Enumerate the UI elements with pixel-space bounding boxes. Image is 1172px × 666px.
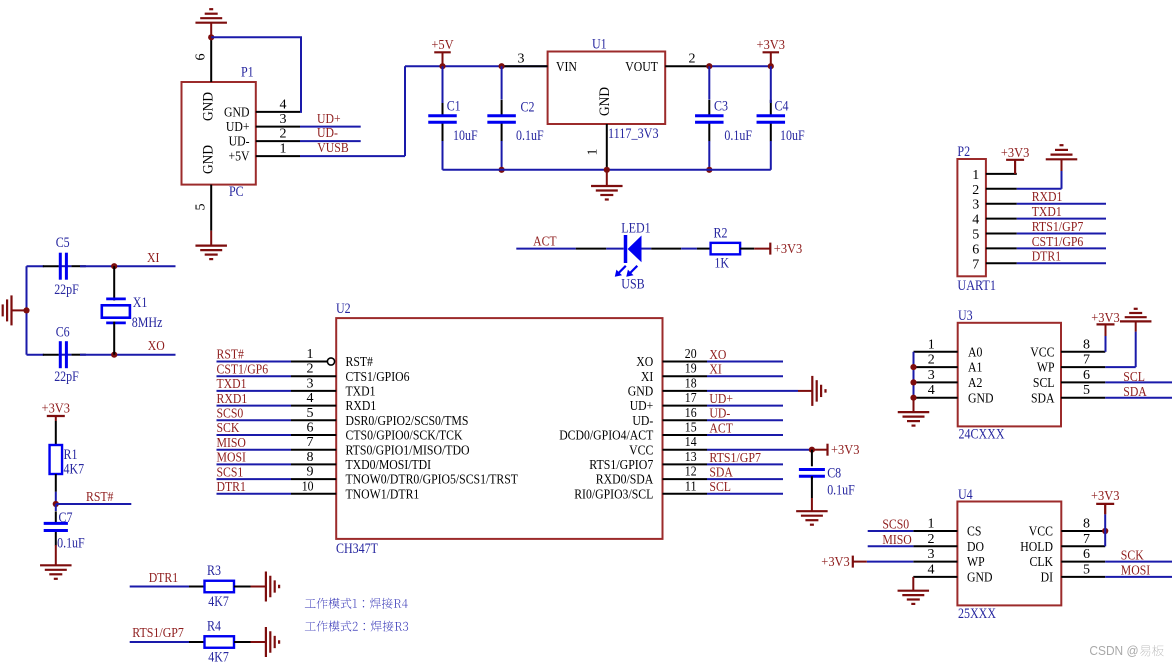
svg-text:5: 5	[1083, 383, 1090, 398]
svg-text:C6: C6	[56, 325, 70, 341]
svg-text:1: 1	[928, 337, 935, 352]
svg-text:SCS0: SCS0	[217, 407, 244, 422]
svg-text:5: 5	[194, 204, 209, 211]
svg-text:2: 2	[928, 532, 935, 547]
svg-text:CS: CS	[967, 525, 981, 540]
svg-text:20: 20	[685, 347, 697, 362]
svg-text:VIN: VIN	[556, 60, 577, 75]
svg-text:U4: U4	[958, 487, 973, 503]
svg-text:SCK: SCK	[217, 421, 240, 436]
svg-text:+3V3: +3V3	[42, 402, 71, 417]
svg-text:SCL: SCL	[1123, 370, 1145, 385]
svg-text:C5: C5	[56, 235, 70, 251]
svg-text:2: 2	[972, 183, 979, 198]
svg-text:TNOW1/DTR1: TNOW1/DTR1	[346, 487, 420, 502]
svg-text:CSDN @: CSDN @	[1089, 643, 1138, 658]
svg-text:RTS1/GPIO7: RTS1/GPIO7	[589, 458, 653, 473]
svg-text:DTR1: DTR1	[217, 480, 246, 495]
svg-text:1K: 1K	[714, 256, 729, 272]
svg-text:+3V3: +3V3	[1091, 489, 1120, 504]
svg-text:SCL: SCL	[1033, 376, 1055, 391]
svg-text:UD-: UD-	[317, 126, 338, 141]
svg-text:CST1/GP6: CST1/GP6	[217, 362, 269, 377]
svg-text:RST#: RST#	[86, 490, 113, 505]
svg-text:9: 9	[307, 465, 314, 480]
svg-text:XO: XO	[636, 355, 653, 370]
svg-text:C8: C8	[827, 466, 841, 482]
svg-text:RXD1: RXD1	[346, 399, 377, 414]
svg-text:SCS0: SCS0	[882, 518, 909, 533]
svg-text:XO: XO	[709, 348, 726, 363]
svg-text:17: 17	[685, 391, 697, 406]
svg-text:4: 4	[307, 391, 314, 406]
svg-text:RTS1/GP7: RTS1/GP7	[132, 626, 184, 641]
svg-text:SCS1: SCS1	[217, 465, 244, 480]
svg-text:CTS1/GPIO6: CTS1/GPIO6	[346, 370, 410, 385]
svg-text:4K7: 4K7	[208, 650, 229, 666]
svg-text:3: 3	[928, 368, 935, 383]
svg-text:6: 6	[1083, 368, 1090, 383]
svg-text:A2: A2	[968, 376, 982, 391]
svg-text:19: 19	[685, 362, 697, 377]
svg-text:7: 7	[1083, 353, 1090, 368]
svg-text:UD+: UD+	[317, 112, 341, 127]
svg-text:+3V3: +3V3	[774, 242, 803, 257]
svg-text:CLK: CLK	[1030, 555, 1054, 570]
svg-text:2: 2	[689, 51, 696, 66]
svg-text:0.1uF: 0.1uF	[827, 483, 855, 499]
svg-text:5: 5	[307, 406, 314, 421]
svg-text:XO: XO	[148, 339, 165, 354]
svg-text:0.1uF: 0.1uF	[724, 128, 752, 144]
svg-text:2: 2	[280, 127, 287, 142]
svg-text:GND: GND	[596, 87, 613, 116]
svg-text:15: 15	[685, 421, 697, 436]
svg-text:VOUT: VOUT	[625, 60, 658, 75]
svg-text:7: 7	[1083, 532, 1090, 547]
svg-text:1117_3V3: 1117_3V3	[608, 126, 659, 142]
svg-text:3: 3	[928, 547, 935, 562]
svg-text:C2: C2	[521, 99, 535, 115]
svg-text:7: 7	[307, 435, 314, 450]
svg-text:3: 3	[972, 198, 979, 213]
svg-text:16: 16	[685, 406, 697, 421]
svg-text:0.1uF: 0.1uF	[516, 128, 544, 144]
svg-text:C3: C3	[714, 99, 728, 115]
svg-text:UD-: UD-	[229, 135, 250, 150]
svg-text:SDA: SDA	[1031, 391, 1055, 406]
svg-text:3: 3	[280, 112, 287, 127]
svg-text:GND: GND	[967, 571, 993, 586]
svg-text:0.1uF: 0.1uF	[57, 535, 85, 551]
svg-text:C1: C1	[447, 99, 461, 115]
svg-text:6: 6	[194, 54, 209, 61]
svg-text:GND: GND	[224, 106, 250, 121]
svg-text:GND: GND	[200, 145, 217, 174]
svg-text:C4: C4	[775, 99, 789, 115]
svg-text:18: 18	[685, 376, 697, 391]
svg-text:SDA: SDA	[1123, 385, 1147, 400]
svg-text:RTS1/GP7: RTS1/GP7	[1032, 220, 1084, 235]
svg-text:4: 4	[280, 97, 287, 112]
svg-text:XI: XI	[641, 370, 654, 385]
svg-text:HOLD: HOLD	[1020, 540, 1053, 555]
svg-text:MOSI: MOSI	[217, 451, 247, 466]
svg-text:A0: A0	[968, 345, 982, 360]
svg-text:24CXXX: 24CXXX	[959, 426, 1005, 442]
svg-text:A1: A1	[968, 361, 982, 376]
svg-text:ACT: ACT	[709, 421, 733, 436]
svg-text:WP: WP	[1037, 361, 1055, 376]
svg-text:P1: P1	[241, 65, 254, 81]
svg-text:2: 2	[928, 353, 935, 368]
svg-text:RXD0/SDA: RXD0/SDA	[596, 473, 654, 488]
svg-text:6: 6	[1083, 547, 1090, 562]
svg-text:10uF: 10uF	[780, 128, 805, 144]
svg-text:UD+: UD+	[226, 120, 250, 135]
svg-text:DO: DO	[967, 540, 984, 555]
svg-text:1: 1	[307, 347, 314, 362]
svg-text:VCC: VCC	[1029, 525, 1053, 540]
svg-text:GND: GND	[628, 385, 654, 400]
svg-text:DI: DI	[1041, 571, 1054, 586]
svg-text:XI: XI	[709, 363, 722, 378]
svg-text:P2: P2	[957, 144, 970, 160]
svg-text:4: 4	[928, 383, 935, 398]
svg-text:R2: R2	[714, 225, 728, 241]
svg-text:TXD1: TXD1	[217, 377, 247, 392]
svg-text:VCC: VCC	[629, 443, 653, 458]
svg-text:12: 12	[685, 465, 697, 480]
svg-text:8: 8	[1083, 517, 1090, 532]
svg-text:DTR1: DTR1	[149, 571, 178, 586]
svg-text:U3: U3	[958, 308, 973, 324]
svg-text:RST#: RST#	[346, 355, 373, 370]
svg-text:UD+: UD+	[709, 392, 733, 407]
svg-text:CST1/GP6: CST1/GP6	[1032, 235, 1084, 250]
svg-text:UD+: UD+	[630, 399, 654, 414]
svg-text:+3V3: +3V3	[1091, 311, 1120, 326]
svg-text:11: 11	[685, 479, 697, 494]
svg-text:U2: U2	[336, 301, 351, 317]
svg-text:RI0/GPIO3/SCL: RI0/GPIO3/SCL	[574, 487, 653, 502]
svg-text:VUSB: VUSB	[317, 141, 348, 156]
svg-text:SDA: SDA	[709, 466, 733, 481]
svg-text:8: 8	[307, 450, 314, 465]
svg-text:3: 3	[307, 376, 314, 391]
svg-text:+3V3: +3V3	[821, 555, 850, 570]
svg-text:X1: X1	[133, 295, 148, 311]
svg-text:3: 3	[518, 51, 525, 66]
svg-text:DTR1: DTR1	[1032, 250, 1061, 265]
svg-text:SCL: SCL	[709, 480, 731, 495]
svg-text:DSR0/GPIO2/SCS0/TMS: DSR0/GPIO2/SCS0/TMS	[346, 414, 469, 429]
svg-text:+5V: +5V	[229, 150, 250, 165]
svg-text:4K7: 4K7	[208, 594, 229, 610]
svg-text:+3V3: +3V3	[1001, 146, 1030, 161]
svg-text:RTS1/GP7: RTS1/GP7	[709, 451, 761, 466]
svg-text:10: 10	[302, 479, 314, 494]
svg-text:22pF: 22pF	[54, 282, 79, 298]
svg-text:MISO: MISO	[217, 436, 246, 451]
svg-text:R4: R4	[207, 619, 221, 635]
svg-text:8MHz: 8MHz	[132, 315, 163, 331]
svg-text:U1: U1	[592, 37, 607, 53]
svg-text:25XXX: 25XXX	[958, 606, 996, 622]
svg-text:1: 1	[586, 149, 601, 156]
svg-text:4: 4	[928, 562, 935, 577]
svg-text:2: 2	[307, 362, 314, 377]
svg-text:R1: R1	[64, 447, 78, 463]
svg-text:PC: PC	[229, 184, 244, 200]
svg-text:5: 5	[972, 228, 979, 243]
svg-text:SCK: SCK	[1121, 548, 1144, 563]
svg-text:TXD0/MOSI/TDI: TXD0/MOSI/TDI	[346, 458, 432, 473]
svg-text:MISO: MISO	[882, 533, 911, 548]
svg-text:DCD0/GPIO4/ACT: DCD0/GPIO4/ACT	[559, 429, 653, 444]
svg-text:TXD1: TXD1	[346, 385, 376, 400]
svg-text:LED1: LED1	[621, 220, 650, 236]
svg-text:MOSI: MOSI	[1121, 564, 1151, 579]
svg-text:RST#: RST#	[217, 348, 244, 363]
svg-text:8: 8	[1083, 337, 1090, 352]
svg-text:CH347T: CH347T	[336, 541, 378, 557]
svg-text:RXD1: RXD1	[1032, 190, 1063, 205]
svg-text:VCC: VCC	[1030, 345, 1054, 360]
svg-text:+3V3: +3V3	[757, 38, 786, 53]
svg-text:UART1: UART1	[957, 278, 996, 294]
svg-text:RTS0/GPIO1/MISO/TDO: RTS0/GPIO1/MISO/TDO	[346, 443, 470, 458]
svg-text:GND: GND	[200, 92, 217, 121]
svg-text:10uF: 10uF	[453, 128, 478, 144]
svg-text:6: 6	[972, 242, 979, 257]
svg-text:UD-: UD-	[632, 414, 653, 429]
svg-text:USB: USB	[621, 277, 644, 293]
svg-text:4: 4	[972, 213, 979, 228]
svg-text:WP: WP	[967, 555, 985, 570]
svg-text:R3: R3	[207, 563, 221, 579]
svg-text:1: 1	[928, 517, 935, 532]
svg-text:6: 6	[307, 421, 314, 436]
svg-text:XI: XI	[147, 251, 160, 266]
svg-text:C7: C7	[59, 510, 73, 526]
svg-text:RXD1: RXD1	[217, 392, 248, 407]
svg-text:TXD1: TXD1	[1032, 205, 1062, 220]
svg-text:CTS0/GPIO0/SCK/TCK: CTS0/GPIO0/SCK/TCK	[346, 429, 463, 444]
svg-text:+5V: +5V	[431, 38, 453, 53]
svg-text:GND: GND	[968, 391, 994, 406]
svg-text:+3V3: +3V3	[831, 443, 860, 458]
svg-text:22pF: 22pF	[54, 369, 79, 385]
svg-text:13: 13	[685, 450, 697, 465]
svg-text:1: 1	[972, 168, 979, 183]
svg-text:4K7: 4K7	[64, 462, 85, 478]
svg-text:7: 7	[972, 257, 979, 272]
svg-text:1: 1	[280, 142, 287, 157]
svg-text:UD-: UD-	[709, 407, 730, 422]
svg-text:ACT: ACT	[533, 234, 557, 249]
svg-text:5: 5	[1083, 562, 1090, 577]
svg-text:14: 14	[685, 435, 697, 450]
svg-text:TNOW0/DTR0/GPIO5/SCS1/TRST: TNOW0/DTR0/GPIO5/SCS1/TRST	[346, 473, 519, 488]
